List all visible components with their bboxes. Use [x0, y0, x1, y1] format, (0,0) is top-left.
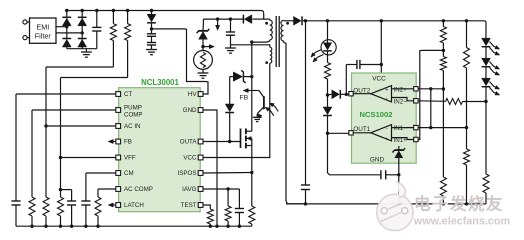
resistor R-iavg — [227, 189, 229, 206]
zener D-gnd at NCS GND — [398, 146, 400, 150]
wire IAVG — [203, 188, 240, 190]
diode D-out1 (to OUT1) — [327, 95, 329, 107]
resistor R-divider-A (top, feeds AC IN) — [112, 9, 115, 12]
resistor R-sense — [249, 206, 255, 224]
LED string LED2 — [482, 58, 491, 66]
svg-text:NCL30001: NCL30001 — [141, 78, 179, 87]
NCL pin TEST (right) — [198, 203, 203, 208]
NCL pin CT — [116, 92, 121, 97]
wire ISPOS — [203, 172, 252, 175]
wire aux-top to C-clamp ground node — [231, 44, 269, 46]
resistor R-vff — [60, 158, 62, 198]
NCS pin IN2+ — [414, 87, 418, 91]
resistor R-s5 — [464, 149, 470, 165]
wire CT to C-ct — [16, 93, 116, 95]
svg-text:IN1+: IN1+ — [394, 137, 408, 144]
NCL pin ISPOS (right) — [198, 171, 203, 176]
NCS pin IN2- — [414, 99, 418, 103]
resistor R-s2 (divider bottom) — [440, 57, 446, 71]
transformer T1 core — [275, 16, 277, 67]
NCS1002 VCC supply wire — [380, 19, 383, 22]
svg-text:IAVG: IAVG — [182, 186, 197, 193]
svg-text:-: - — [386, 126, 388, 132]
NCL pin AC IN — [116, 124, 121, 129]
resistor R-s3 (bottom of V3) — [440, 177, 446, 196]
capacitor C-hv2 — [147, 42, 156, 44]
svg-text:GND: GND — [183, 107, 197, 114]
NCL pin OUTA (right) — [198, 139, 203, 144]
svg-text:HV: HV — [188, 91, 197, 98]
svg-text:+: + — [385, 136, 388, 142]
diode D-out2 (to OUT2) — [328, 93, 332, 96]
resistor R-s4 — [464, 48, 470, 69]
wire IN2+ line — [418, 88, 443, 90]
svg-text:-: - — [386, 97, 388, 103]
svg-text:FB: FB — [124, 139, 132, 146]
primary bottom rail — [16, 225, 252, 227]
wire HV startup to NCL HV pin — [152, 29, 209, 94]
primary ground under bridge — [85, 49, 87, 52]
ground at opto emitter — [256, 114, 258, 118]
surge arrow right — [205, 46, 211, 48]
svg-text:电子发烧友: 电子发烧友 — [414, 194, 504, 214]
wire source to ISPOS and R-sense — [251, 146, 253, 207]
svg-text:PUMP: PUMP — [124, 105, 142, 112]
resistor R-pump — [29, 197, 35, 216]
wire drain — [251, 42, 253, 131]
transformer T1 primary winding — [269, 18, 270, 20]
bulk capacitor C-bulk after bridge — [96, 11, 98, 28]
svg-text:ISPOS: ISPOS — [178, 170, 197, 177]
svg-text:FB: FB — [240, 95, 249, 102]
wire OUT1 node down to GND-side capacitor — [328, 133, 381, 175]
input terminal J2 (neutral) — [23, 36, 27, 40]
wire V2 (IN2+ to IN1-) — [430, 89, 432, 128]
ground under thermistor — [202, 69, 204, 73]
resistor R-sense-led — [483, 174, 489, 193]
resistor R-test — [207, 209, 213, 224]
wire divider tap to IN1+ — [418, 50, 443, 139]
svg-text:VCC: VCC — [183, 155, 197, 162]
trimmer R-latch — [95, 197, 101, 216]
svg-text:VFF: VFF — [124, 155, 136, 162]
capacitor C-hv1 — [147, 33, 156, 35]
ground under C-hv2 — [146, 49, 157, 51]
svg-text:+: + — [385, 87, 388, 93]
NCS pin IN1- — [414, 125, 418, 129]
resistor R-divider-B (top, feeds VFF) — [126, 9, 129, 12]
optocoupler LED branch wire — [326, 19, 329, 22]
bridge rectifier diode D3 (right top) — [81, 11, 83, 19]
top rail (rectified HV bus) — [67, 10, 261, 12]
wire to OUT1 pin — [328, 132, 350, 134]
clamp rail wire — [203, 18, 243, 20]
wire secondary return — [284, 41, 306, 204]
MOSFET Q1 — [240, 129, 242, 149]
wire R-divider-B to VFF column — [61, 77, 128, 79]
transformer T1 aux winding — [268, 45, 270, 47]
NCS1002 block — [352, 73, 417, 163]
coupling capacitor C-vcc2 — [345, 93, 348, 96]
secondary output rail — [304, 19, 307, 22]
NCS pin OUT2 — [349, 92, 353, 96]
NCL pin VCC (right) — [198, 155, 203, 160]
wire NCL GND down — [203, 110, 217, 226]
svg-text:COMP: COMP — [124, 112, 143, 119]
wire V3 lower segment — [442, 89, 444, 177]
wire EMI output top to bridge left leg — [56, 26, 67, 28]
FB off-page arrow at NCL — [112, 141, 116, 143]
svg-text:NCS1002: NCS1002 — [360, 110, 393, 119]
clamp diode D-cl (horizontal, cathode left) — [244, 15, 252, 24]
NCS pin IN1+ — [414, 137, 418, 141]
wire AC COMP to trimmer — [98, 188, 116, 190]
wire V4 from rail — [465, 19, 468, 22]
svg-text:LATCH: LATCH — [124, 202, 144, 209]
svg-text:IN2−: IN2− — [394, 98, 408, 105]
capacitor C-gnd (horizontal) — [380, 170, 382, 179]
NCL pin GND (right) — [198, 108, 203, 113]
wire R-divider-A to AC IN column — [46, 66, 113, 68]
capacitor C-clamp — [229, 17, 232, 20]
optocoupler phototransistor — [259, 91, 264, 98]
svg-text:GND: GND — [370, 157, 385, 164]
svg-text:TEST: TEST — [181, 202, 197, 209]
primary phase dot — [265, 22, 268, 25]
wire TEST to R-test — [203, 205, 211, 209]
wire primary bottom to MOSFET drain node — [252, 40, 270, 42]
aux phase dot — [265, 61, 268, 64]
wire VFF — [59, 156, 62, 159]
LED string LED3 — [482, 78, 491, 86]
wire CM to C-cm — [86, 172, 116, 174]
optocoupler LED (emitter side) — [321, 40, 336, 55]
surge arrow down on clamp rail — [216, 17, 219, 20]
capacitor C-iavg — [238, 189, 240, 209]
NCL pin LATCH — [116, 203, 121, 208]
NCL pin PUMP COMP — [116, 108, 121, 113]
FB off-page arrow near optocoupler — [243, 88, 248, 92]
ground under C-clamp — [225, 47, 236, 49]
NCS pin OUT1 — [349, 131, 353, 135]
wire NCL OUTA to gate — [203, 141, 241, 143]
thermistor RT (circle with zigzag) — [194, 51, 213, 70]
secondary ground rail — [286, 203, 486, 205]
opto LED light arrows — [311, 50, 322, 58]
bridge rectifier diode D4 (right bottom) — [78, 39, 87, 47]
NCL pin HV (right) — [198, 92, 203, 97]
LATCH off-page arrow at NCL — [112, 204, 116, 206]
watermark logo disc — [377, 182, 413, 231]
svg-text:AC COMP: AC COMP — [124, 186, 153, 193]
svg-text:CT: CT — [124, 91, 132, 98]
wire aux return to NCL VCC — [203, 63, 270, 157]
svg-text:EMI: EMI — [36, 23, 49, 32]
output filter capacitor C-out — [305, 21, 307, 185]
svg-text:OUT1: OUT1 — [353, 126, 370, 133]
capacitor C-vff (parallel) — [61, 189, 72, 191]
bridge rectifier diode D1 (left top) — [66, 11, 68, 19]
diode D-hv (from top rail to HV startup) — [150, 9, 153, 12]
bridge rectifier diode D2 (left bottom) — [62, 39, 71, 47]
svg-text:www.elecfans.com: www.elecfans.com — [413, 216, 510, 228]
NCL pin FB — [116, 139, 121, 144]
wire AC IN — [44, 124, 47, 127]
TVS zener D-clamp (vertical) — [202, 19, 204, 31]
EMI filter block — [30, 18, 57, 43]
capacitor C-ct — [11, 200, 20, 202]
svg-text:IN2+: IN2+ — [394, 86, 408, 93]
input terminal J1 (line) — [23, 20, 27, 24]
wire IN1- line — [418, 127, 466, 129]
NCL pin AC COMP — [116, 187, 121, 192]
NCL pin IAVG (right) — [198, 187, 203, 192]
svg-text:OUTA: OUTA — [180, 139, 198, 146]
svg-text:VCC: VCC — [372, 76, 386, 83]
wire EMI output bottom to bridge right leg — [56, 32, 82, 34]
transformer T1 secondary winding — [283, 19, 285, 21]
NCL pin VFF — [116, 155, 121, 160]
resistor R-acin — [45, 126, 47, 197]
secondary phase dot — [286, 22, 289, 25]
wire LED string to sense resistor — [485, 102, 487, 175]
gate protection zener D-g1 chain — [229, 113, 231, 142]
wire PUMP COMP to R-pump — [32, 109, 116, 111]
svg-text:AC IN: AC IN — [124, 123, 141, 130]
comparator U2B (top) — [371, 86, 392, 102]
capacitor C-cm — [81, 200, 90, 202]
bridge bottom wire — [67, 48, 97, 50]
NCL pin CM — [116, 171, 121, 176]
svg-text:CM: CM — [124, 170, 134, 177]
NCL30001 block — [119, 88, 201, 212]
svg-text:Filter: Filter — [35, 32, 52, 41]
opto receive light arrows — [265, 107, 274, 115]
resistor R-led (opto series) — [325, 63, 331, 80]
zener D-g2 (to drain) — [233, 72, 242, 81]
comparator U2A (bottom) — [371, 125, 392, 141]
resistor R-s6 (horizontal, IN2- sense) — [418, 100, 445, 103]
svg-text:IN1−: IN1− — [394, 125, 408, 132]
resistor R-s1 (divider top) — [442, 19, 445, 22]
LED string LED1 — [485, 37, 487, 39]
secondary rectifier diode D-out — [284, 20, 294, 22]
